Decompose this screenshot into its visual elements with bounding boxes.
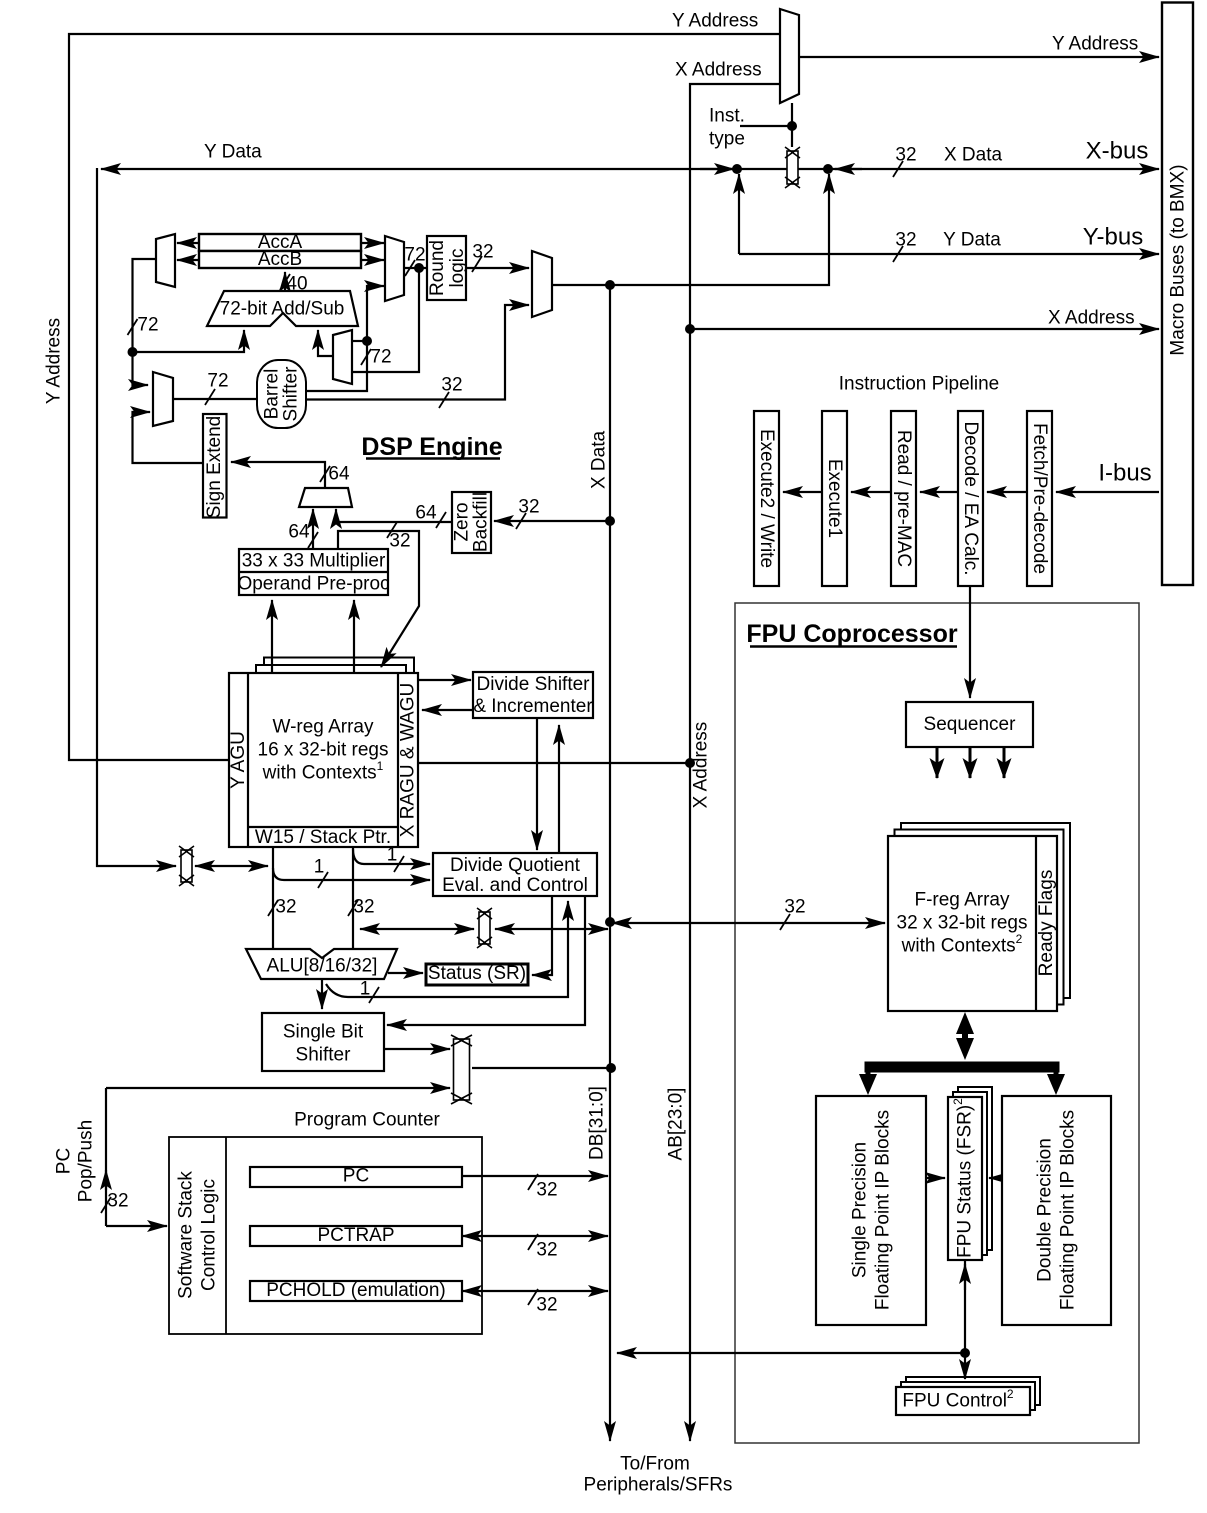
wire ALU output to Single Bit Shifter [321, 979, 323, 1009]
svg-text:32 x 32-bit regs: 32 x 32-bit regs [897, 913, 1028, 934]
box Zero Backfill [452, 492, 491, 553]
wire PC valve output to DB [472, 1067, 611, 1069]
wire W-reg to multiplier operand B [353, 600, 355, 673]
wire multiplier 32 bypass to W-reg array [338, 531, 419, 667]
svg-text:64: 64 [415, 503, 437, 524]
svg-text:32: 32 [441, 375, 462, 396]
svg-text:32: 32 [784, 897, 805, 918]
svg-text:with Contexts1: with Contexts1 [262, 759, 384, 784]
svg-text:Inst.: Inst. [709, 106, 745, 127]
svg-text:Floating Point IP Blocks: Floating Point IP Blocks [1058, 1110, 1079, 1310]
svg-text:Floating Point IP Blocks: Floating Point IP Blocks [873, 1110, 894, 1310]
box Status (SR) [426, 964, 528, 985]
wire DB transceiver line right of DSP valve [495, 928, 608, 930]
junction Inst type [787, 121, 797, 131]
box PC [250, 1167, 462, 1187]
svg-text:To/From: To/From [620, 1454, 690, 1475]
svg-text:40: 40 [286, 274, 307, 295]
wire Inst. type [740, 125, 792, 127]
wire Y Address: Y AGU to top mux M1 [69, 34, 780, 760]
wire barrel shifter net riser to mux M3 input [306, 286, 384, 391]
svg-text:X Data: X Data [944, 145, 1003, 166]
valve bus transceiver PC to DB [451, 1035, 472, 1104]
register AccA [199, 234, 361, 251]
svg-text:Instruction Pipeline: Instruction Pipeline [839, 374, 1000, 395]
wire DB to F-reg Array 32 [612, 922, 885, 924]
wire Y Data / X-bus horizontal backbone [101, 168, 1159, 170]
wire PC to DB 32 [462, 1175, 608, 1177]
wire Y-bus Y Data line [738, 174, 740, 254]
wire multiplier output 64 to mux M7 left input [312, 509, 314, 549]
svg-text:Pop/Push: Pop/Push [76, 1120, 97, 1202]
pipeline stage Read / pre-MAC [891, 411, 916, 586]
svg-text:with Contexts2: with Contexts2 [901, 932, 1023, 957]
mux M7 multiplier/backfill select [299, 488, 352, 507]
svg-text:PCHOLD (emulation): PCHOLD (emulation) [266, 1280, 446, 1301]
wire I-bus [1056, 491, 1159, 493]
box Single Precision Floating Point IP Blocks [816, 1096, 926, 1325]
box F-reg Array main [888, 836, 1057, 1011]
svg-text:32: 32 [895, 230, 916, 251]
wire Divide Shifter to W-reg [422, 709, 473, 711]
box Divide Shifter & Incrementer [473, 672, 593, 718]
wire PCTRAP to DB 32 [462, 1235, 608, 1237]
wire W15 1-bit branch to Divide Quotient upper [353, 849, 430, 864]
svg-text:Zero: Zero [452, 502, 473, 541]
wire X Address to macro bus [690, 328, 1159, 330]
svg-text:32: 32 [353, 897, 374, 918]
svg-text:Macro Buses (to BMX): Macro Buses (to BMX) [1168, 164, 1189, 355]
wire DSP result to X-bus riser [552, 174, 829, 285]
svg-text:Single Bit: Single Bit [283, 1022, 364, 1043]
junction barrel net [362, 336, 372, 346]
junction DB to F-reg [605, 917, 615, 927]
svg-text:1: 1 [360, 979, 371, 1000]
svg-text:Sequencer: Sequencer [924, 714, 1017, 735]
wire X RAGU address to AB bus [418, 762, 690, 764]
svg-text:PCTRAP: PCTRAP [317, 1225, 394, 1246]
svg-text:33 x 33 Multiplier: 33 x 33 Multiplier [242, 551, 386, 572]
wire left mux M2 output 72 to adder input riser [133, 259, 157, 385]
svg-text:Control Logic: Control Logic [199, 1179, 220, 1291]
svg-text:X Data: X Data [589, 431, 610, 490]
box Round logic [427, 236, 466, 300]
svg-text:32: 32 [107, 1191, 128, 1212]
arrowhead into FPU Status bottom [964, 1264, 966, 1290]
FPU Coprocessor enclosure box [735, 603, 1139, 1443]
junction X-bus right [823, 164, 833, 174]
wire Y Data to W15 segment right of transceiver [195, 865, 268, 867]
svg-text:16 x 32-bit regs: 16 x 32-bit regs [258, 740, 389, 761]
svg-text:64: 64 [288, 522, 310, 543]
wire X Address vertical AB bus from top mux input down to peripherals [690, 84, 780, 1441]
arrowhead into X data junction left [700, 168, 734, 170]
wire adder left input from 72 junction [133, 330, 245, 352]
wire pipeline arrow Decode to Read [920, 491, 958, 493]
wire bar to Double Precision block [1054, 1071, 1059, 1078]
wire Divide Quotient to Status [532, 896, 552, 975]
svg-text:32: 32 [518, 497, 539, 518]
svg-text:64: 64 [328, 464, 350, 485]
junction DB to Zero Backfill [605, 516, 615, 526]
wire adder output 40 to AccB [284, 272, 286, 291]
pipeline stage Fetch/Pre-decode [1027, 411, 1052, 586]
wire pipeline arrow Execute1 to Execute2 [783, 491, 822, 493]
svg-text:32: 32 [536, 1240, 557, 1261]
wire Divide Quotient to Single Bit Shifter [387, 896, 585, 1025]
svg-text:X Address: X Address [691, 722, 712, 809]
svg-text:logic: logic [447, 248, 468, 287]
wire AccB to left mux M2 [177, 259, 199, 261]
wire 72 feedback from Round junction down to small mux M5 [352, 268, 419, 372]
junction Round logic 72 [414, 263, 424, 273]
wire PCHOLD to DB 32 [462, 1290, 608, 1292]
mux M5 adder operand [333, 330, 352, 384]
box Single Bit Shifter [262, 1013, 384, 1071]
box W-reg Array with AGU strips [229, 673, 418, 847]
F-reg Array context stack sheets [901, 823, 1070, 998]
svg-text:FPU Coprocessor: FPU Coprocessor [746, 620, 957, 648]
svg-text:Y Data: Y Data [204, 142, 262, 163]
Software Stack Control Logic divider [225, 1137, 227, 1334]
box Divide Quotient Eval. and Control [433, 853, 597, 896]
wire Single Bit Shifter output to PC valve [384, 1048, 450, 1050]
junction 72 adder tap [128, 347, 138, 357]
register AccB [199, 251, 361, 268]
wire DB transceiver line left of DSP valve [360, 928, 474, 930]
wire ALU to Status [388, 972, 423, 974]
svg-text:AccB: AccB [258, 249, 302, 270]
wire Decode / EA Calc. to Sequencer [969, 586, 971, 698]
svg-text:PC: PC [343, 1166, 369, 1187]
svg-text:PC: PC [54, 1148, 75, 1174]
box PCTRAP [250, 1226, 462, 1246]
barrel shifter ellipse [257, 360, 306, 428]
wire PC Pop/Push to PC valve [106, 1087, 450, 1089]
wire W15 1-bit branch to Divide Quotient lower [273, 868, 430, 880]
box 33 x 33 Multiplier / Operand Pre-proc [239, 549, 388, 595]
mux M1 top address mux [780, 9, 799, 103]
bus distribution bar [865, 1062, 1059, 1072]
svg-text:Program Counter: Program Counter [294, 1110, 440, 1131]
bus bar Macro Buses (to BMX) [1162, 3, 1193, 586]
svg-text:X-bus: X-bus [1086, 138, 1149, 165]
W-reg Array context stack sheets [264, 658, 414, 812]
svg-text:Sign Extend: Sign Extend [204, 416, 225, 518]
svg-text:Shifter: Shifter [281, 366, 302, 422]
wire W15 output right column 32 to ALU [352, 847, 354, 949]
wire Divide Quotient up to Divide Shifter [558, 725, 560, 853]
svg-text:72-bit Add/Sub: 72-bit Add/Sub [220, 299, 345, 320]
wire Sign Extend loop to lower mux M4 [133, 412, 204, 463]
svg-text:Y AGU: Y AGU [228, 731, 249, 789]
svg-text:& Incrementer: & Incrementer [473, 696, 593, 717]
junction FPU control tap [960, 1348, 970, 1358]
FPU Status (FSR) context stack sheets [958, 1087, 992, 1250]
valve bus transceiver top X-bus [785, 147, 800, 188]
valve bus transceiver DSP to DB [477, 908, 492, 948]
valve bus transceiver Y Data to W15 [179, 846, 194, 886]
svg-text:type: type [709, 129, 745, 150]
wire X Data tap to Zero Backfill [494, 520, 610, 522]
svg-text:DB[31:0]: DB[31:0] [587, 1086, 608, 1160]
wire Zero Backfill output 64 to mux M7 right input [336, 509, 452, 522]
svg-text:X RAGU & WAGU: X RAGU & WAGU [398, 683, 419, 837]
svg-text:Shifter: Shifter [296, 1045, 352, 1066]
svg-text:Ready Flags: Ready Flags [1036, 870, 1057, 977]
svg-text:Round: Round [427, 240, 448, 296]
wire F-reg to IP blocks thick bidirectional [962, 1026, 968, 1046]
svg-text:I-bus: I-bus [1098, 460, 1151, 487]
svg-text:Decode / EA Calc.: Decode / EA Calc. [960, 421, 981, 575]
wire ALU 1-bit flag to Divide Quotient [326, 901, 568, 997]
mux M3 accumulator to round [385, 236, 404, 301]
svg-text:32: 32 [389, 531, 410, 552]
mux M2 accumulator readback [156, 234, 175, 287]
svg-text:1: 1 [314, 857, 325, 878]
junction X Address to bus [685, 324, 695, 334]
svg-text:Fetch/Pre-decode: Fetch/Pre-decode [1029, 423, 1050, 574]
svg-text:X Address: X Address [1048, 308, 1135, 329]
svg-text:Single Precision: Single Precision [850, 1142, 871, 1278]
wire AccB to right mux M3 [361, 259, 384, 261]
svg-text:Execute1: Execute1 [824, 459, 845, 538]
svg-text:W-reg Array: W-reg Array [272, 717, 374, 738]
svg-text:Double Precision: Double Precision [1035, 1138, 1056, 1282]
wire AccA to left mux M2 [177, 242, 199, 244]
svg-text:Y Address: Y Address [672, 11, 758, 32]
wire Double Precision to FPU Status [989, 1177, 1002, 1179]
svg-text:FPU Status (FSR)2: FPU Status (FSR)2 [951, 1098, 976, 1258]
mux M6 result select [532, 251, 552, 317]
wire X Data / DB[31:0] vertical [609, 285, 611, 1441]
pipeline stage Execute1 [822, 411, 847, 586]
wire multiplier mux output 64 to Sign Extend [231, 462, 325, 488]
svg-text:1: 1 [387, 845, 398, 866]
adder 72-bit Add/Sub [207, 291, 358, 326]
wire PC Pop/Push into Software Stack Control Logic [106, 1225, 167, 1227]
alu ALU[8/16/32] [246, 949, 397, 979]
svg-text:32: 32 [275, 897, 296, 918]
pipeline stage Execute2 / Write [754, 411, 779, 586]
svg-text:X Address: X Address [675, 60, 762, 81]
svg-text:Divide Quotient: Divide Quotient [450, 855, 581, 876]
svg-text:72: 72 [137, 315, 158, 336]
svg-text:32: 32 [536, 1295, 557, 1316]
box Sequencer [906, 702, 1033, 747]
wire AccA to right mux M3 [361, 242, 384, 244]
arrowhead into X data junction right [835, 168, 862, 170]
box Double Precision Floating Point IP Blocks [1002, 1096, 1111, 1325]
svg-text:72: 72 [404, 245, 425, 266]
wire lower mux M4 output 72 to barrel shifter [173, 398, 257, 400]
svg-text:Software Stack: Software Stack [176, 1171, 197, 1299]
svg-text:32: 32 [472, 242, 493, 263]
box FPU Status (FSR) main [948, 1097, 982, 1260]
svg-text:Operand Pre-proc: Operand Pre-proc [237, 574, 389, 595]
FPU Control context stack sheets [906, 1377, 1040, 1405]
svg-text:Barrel: Barrel [262, 369, 283, 420]
svg-text:32: 32 [895, 145, 916, 166]
svg-text:AB[23:0]: AB[23:0] [666, 1088, 687, 1161]
wire top mux M1 select vertical [791, 103, 793, 147]
junction X-bus left [732, 164, 742, 174]
wire pipeline arrow Read to Execute1 [851, 491, 891, 493]
wire small mux M5 input stub [352, 340, 367, 342]
wire bar to Single Precision block [866, 1071, 871, 1078]
wire Single Precision to FPU Status [926, 1177, 945, 1179]
box FPU Control main [896, 1387, 1030, 1415]
junction X RAGU to AB [685, 758, 695, 768]
wire pipeline arrow Fetch to Decode [987, 491, 1027, 493]
svg-text:Y Data: Y Data [943, 230, 1001, 251]
mux M4 barrel shifter source [153, 372, 173, 426]
svg-text:Y Address: Y Address [1052, 34, 1138, 55]
svg-text:Y-bus: Y-bus [1083, 224, 1144, 251]
arrowhead PC push direction [105, 1170, 107, 1190]
svg-text:F-reg Array: F-reg Array [914, 890, 1010, 911]
svg-text:DSP Engine: DSP Engine [361, 433, 502, 461]
svg-text:Peripherals/SFRs: Peripherals/SFRs [584, 1475, 733, 1496]
junction result to DB [605, 280, 615, 290]
svg-text:72: 72 [370, 347, 391, 368]
wire top mux M1 output Y Address to macro bus [799, 56, 1159, 58]
Program Counter enclosure box [169, 1137, 482, 1334]
wire PC Pop/Push vertical 32 [105, 1088, 107, 1226]
wire Y Data vertical drop at left [97, 168, 176, 866]
svg-text:Backfill: Backfill [471, 492, 492, 552]
svg-text:ALU[8/16/32]: ALU[8/16/32] [267, 956, 378, 977]
svg-text:W15 / Stack Ptr.: W15 / Stack Ptr. [255, 827, 391, 848]
wire Sequencer control arrows [937, 747, 1004, 778]
wire W-reg to Divide Shifter [418, 679, 471, 681]
svg-text:Divide Shifter: Divide Shifter [477, 674, 591, 695]
wire Divide Shifter down to Divide Quotient [536, 718, 538, 850]
box PCHOLD (emulation) [250, 1281, 462, 1301]
svg-text:Eval. and Control: Eval. and Control [442, 875, 588, 896]
svg-text:Status (SR): Status (SR) [428, 963, 526, 984]
junction PC valve to DB [606, 1063, 616, 1073]
wire small mux M5 output to adder right input [318, 330, 333, 356]
wire barrel shifter output 32 to result mux M6 [306, 305, 529, 400]
svg-text:72: 72 [207, 371, 228, 392]
wire FPU Control tap to DB [617, 1352, 965, 1354]
wire W-reg to multiplier operand A [271, 600, 273, 673]
svg-text:32: 32 [536, 1180, 557, 1201]
pipeline stage Decode / EA Calc. [958, 411, 983, 586]
wire FPU Status to FPU Control vertical [964, 1260, 966, 1379]
svg-text:FPU Control2: FPU Control2 [902, 1387, 1014, 1412]
box Sign Extend [203, 414, 227, 518]
wire W15 output left column 32 to ALU [272, 847, 274, 949]
wire Round logic output 32 to result mux M6 [466, 267, 529, 269]
wire mux M3 output 72 to Round logic [404, 267, 427, 269]
svg-text:Execute2 / Write: Execute2 / Write [756, 429, 777, 568]
svg-text:Y Address: Y Address [44, 318, 65, 404]
svg-text:Read / pre-MAC: Read / pre-MAC [893, 430, 914, 567]
